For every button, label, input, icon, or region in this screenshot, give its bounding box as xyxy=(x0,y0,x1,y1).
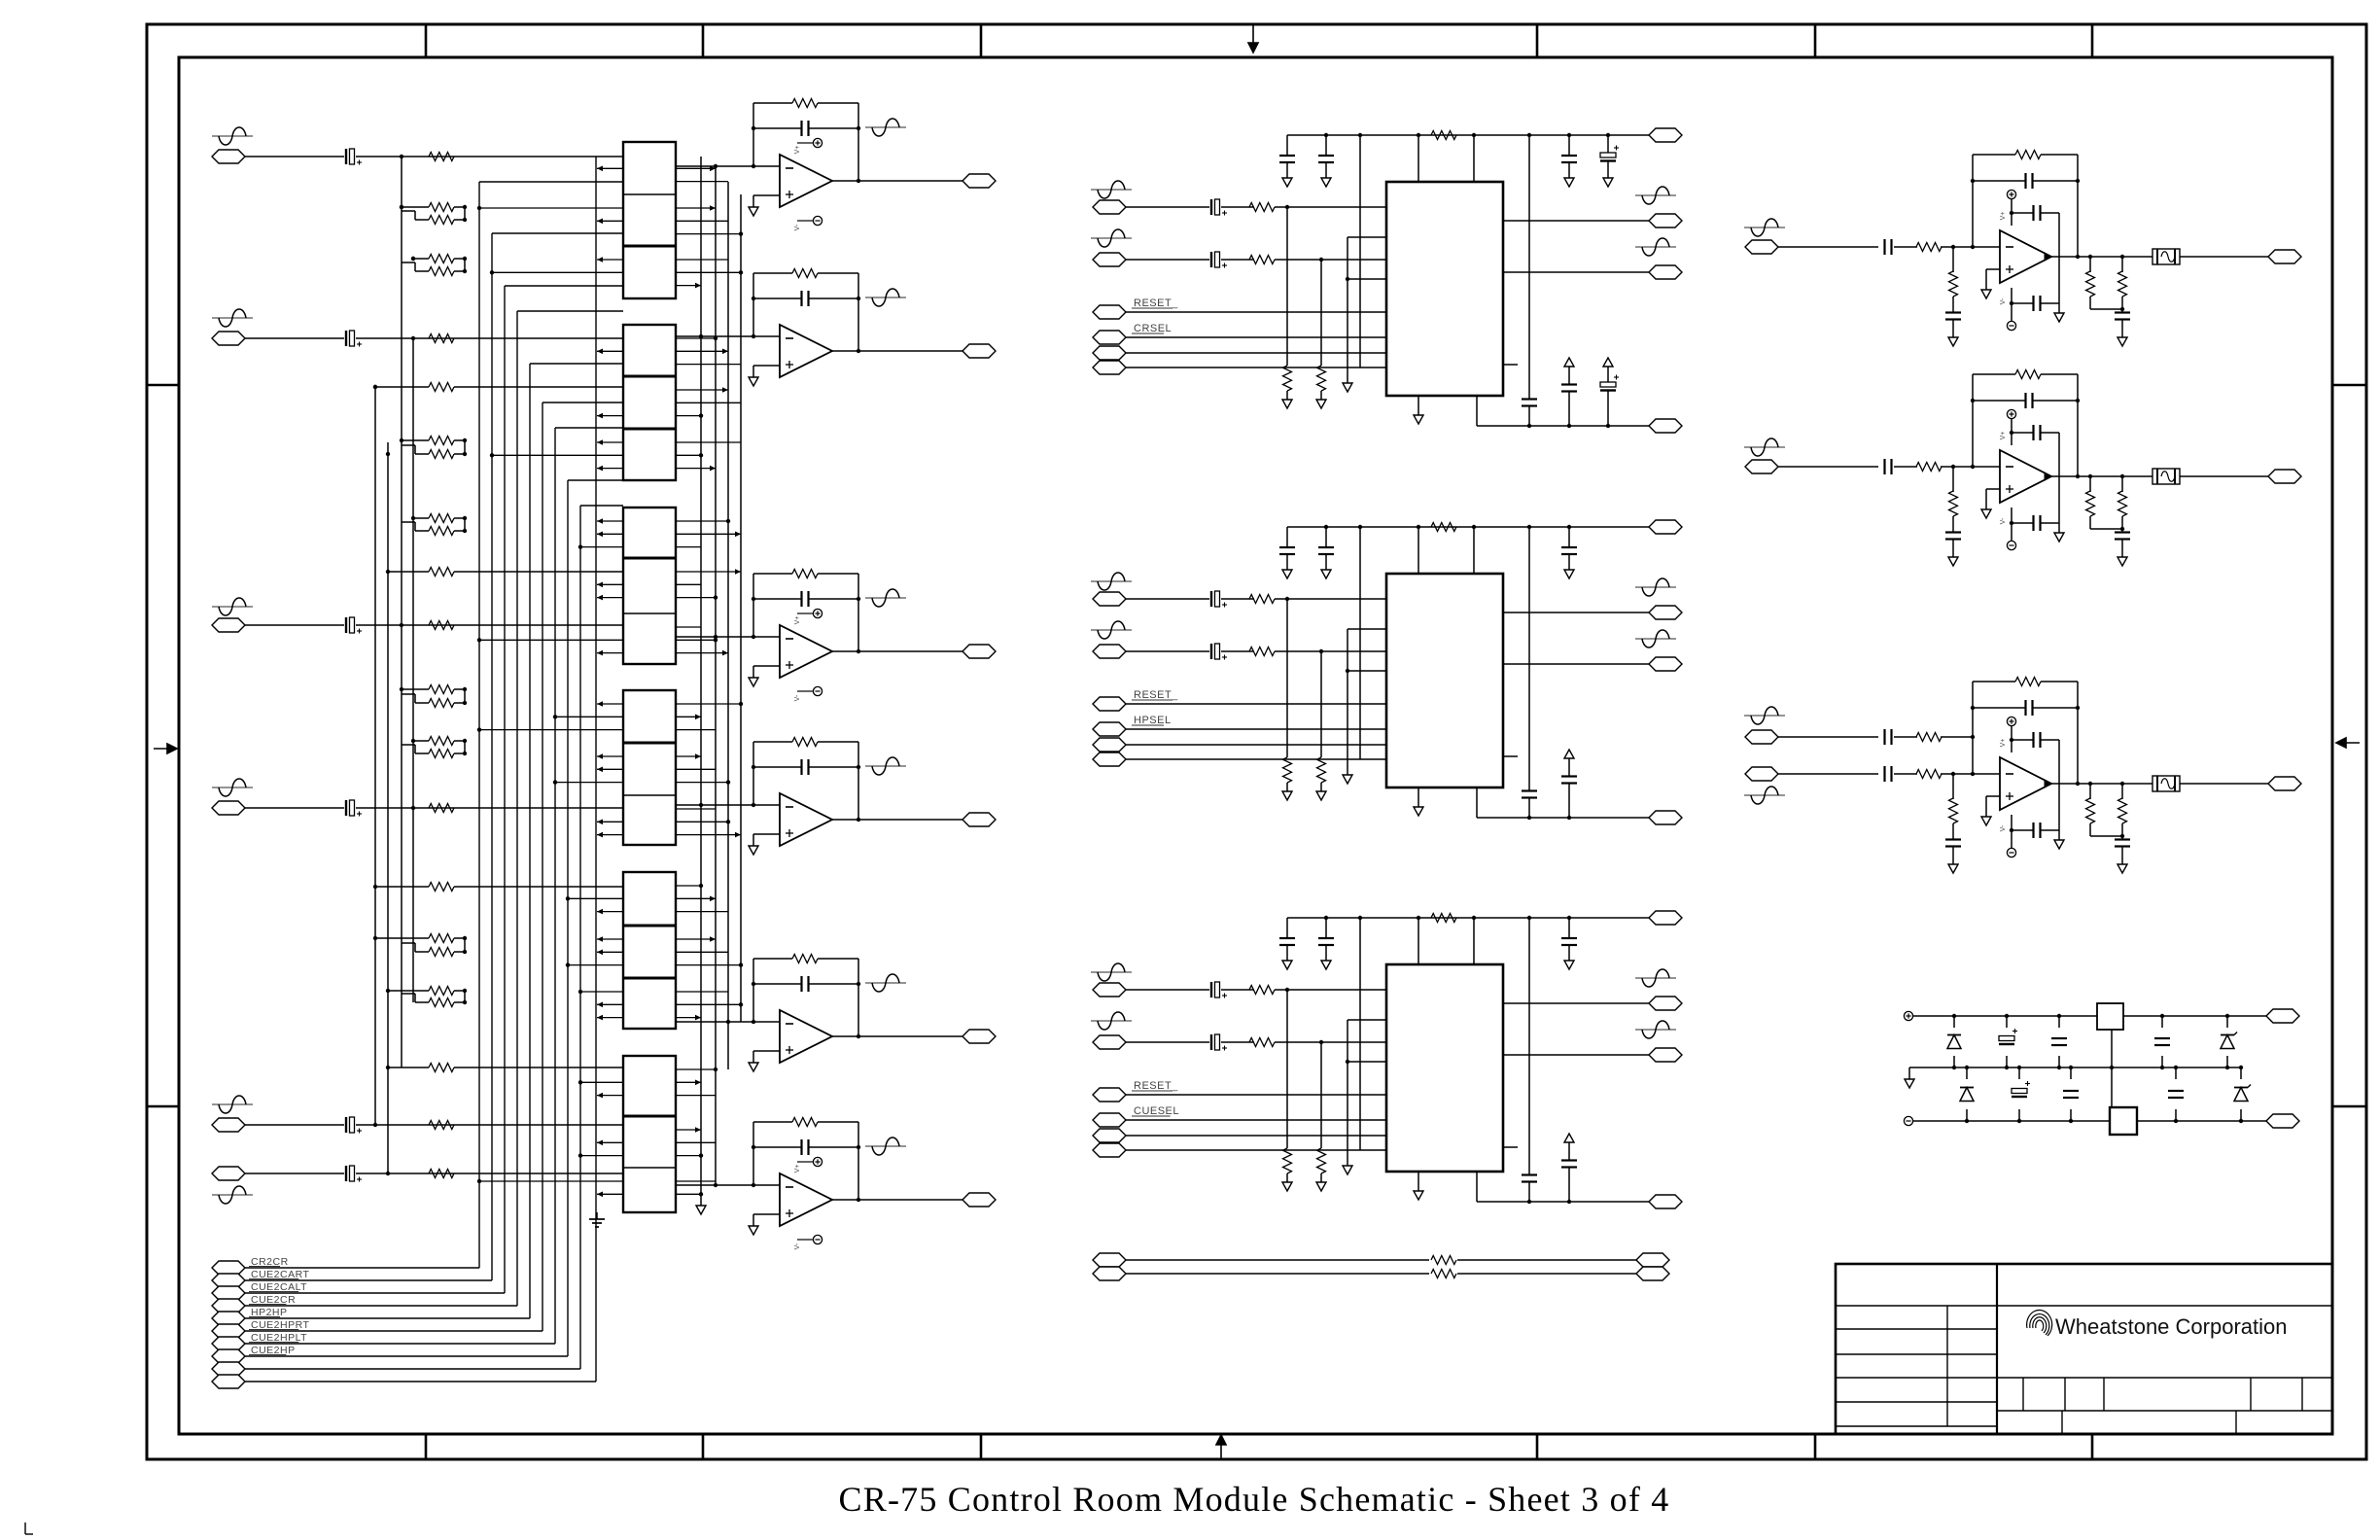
output load 2 xyxy=(2051,475,2152,477)
IC ground 3 xyxy=(1417,1172,1419,1191)
coupling capacitor C3 xyxy=(345,617,347,633)
rail drop 3 xyxy=(1528,918,1530,1174)
router bottom rail 1 xyxy=(1476,396,1478,426)
HPSEL input 2 xyxy=(1093,722,1126,736)
V+ terminal xyxy=(1904,1011,1912,1020)
router rail resistor 3 xyxy=(1431,914,1456,923)
line driver 3 input B xyxy=(1744,715,1785,717)
series cap 3 xyxy=(1883,766,1885,782)
op-amp U21 xyxy=(2000,230,2051,283)
output sine mark A1 xyxy=(865,126,906,128)
pulldown resistor 2a xyxy=(1286,599,1288,757)
router rail resistor 1 xyxy=(1431,131,1456,140)
V- rail 2 xyxy=(2011,507,2012,541)
V+ terminal A6 xyxy=(797,1161,813,1163)
control input 1c xyxy=(1093,346,1126,360)
svg-text:V+: V+ xyxy=(794,616,801,625)
V- terminal xyxy=(1904,1116,1912,1125)
bottom bank d at 2023 xyxy=(1966,1067,1968,1079)
bottom cap 1b xyxy=(1564,358,1574,367)
series resistor 3 xyxy=(1916,770,1942,779)
analog switch block U6 xyxy=(623,1056,676,1212)
router input A 1 xyxy=(1091,189,1132,191)
border zone ticks top xyxy=(425,24,428,57)
line driver 2 input xyxy=(1744,446,1785,448)
output sine mark A5 xyxy=(865,982,906,984)
bottom bank p at 2077 xyxy=(2018,1067,2020,1079)
control input 2c xyxy=(1093,738,1126,752)
RESET_ input 2 xyxy=(1093,697,1126,711)
analog switch block U1 xyxy=(623,142,676,298)
right cap 1b polarized xyxy=(1607,135,1609,153)
V+ rail 3 xyxy=(2007,717,2015,725)
V+ terminal A1 xyxy=(797,142,813,144)
input connector J6 xyxy=(212,1194,253,1196)
svg-text:V-: V- xyxy=(794,224,801,230)
coupling capacitor C2 xyxy=(345,331,347,346)
svg-text:RESET_: RESET_ xyxy=(1134,1080,1178,1092)
decoupling cap 2b xyxy=(1325,527,1327,547)
feedback loop 1 xyxy=(1972,155,1974,247)
input A resistor 2 xyxy=(1249,595,1275,604)
svg-text:V-: V- xyxy=(2000,824,2007,831)
decoupling cap 1b xyxy=(1325,135,1327,156)
input series resistors xyxy=(429,153,454,161)
svg-text:RESET_: RESET_ xyxy=(1134,297,1178,309)
router block 3 top supply rail xyxy=(1287,917,1649,919)
net connector 10 xyxy=(212,1375,245,1388)
op-amp A4 xyxy=(676,804,780,806)
output connector A6 xyxy=(962,1193,996,1207)
output load 3 xyxy=(2051,783,2152,785)
input B sine low 3 xyxy=(1744,794,1785,796)
V- terminal A1 xyxy=(797,220,813,222)
bus line 1 xyxy=(479,181,623,183)
analog switch block U2 xyxy=(623,325,676,480)
feedback jog 1 xyxy=(1359,135,1361,367)
output connector A1 xyxy=(962,174,996,188)
input shunt network 2 xyxy=(1952,467,1954,492)
title block xyxy=(1836,1264,2332,1434)
control input 3c xyxy=(1093,1129,1126,1142)
pulldown resistor 3b xyxy=(1320,1042,1322,1148)
top bank d at 2010 xyxy=(1953,1016,1955,1028)
input B cap 2 xyxy=(1210,644,1212,659)
decoupling cap 3b xyxy=(1325,918,1327,938)
regulator interconnect xyxy=(2111,1030,2113,1107)
bus line 2 xyxy=(492,232,623,234)
regulator VR2 xyxy=(2110,1107,2137,1135)
bottom bank c at 2130 xyxy=(2070,1067,2072,1079)
router bottom rail 2 xyxy=(1476,787,1478,818)
op-amp A2 xyxy=(676,335,780,337)
feedback capacitor A6 xyxy=(753,1146,801,1148)
feedback resistor A1 xyxy=(753,102,792,104)
net connector CUE2HPLT xyxy=(212,1337,245,1350)
top bank z at 2291 xyxy=(2226,1016,2228,1028)
router output 2 1 xyxy=(1503,271,1649,273)
top bank c at 2224 xyxy=(2161,1016,2163,1028)
svg-text:V+: V+ xyxy=(2000,212,2007,221)
input B cap 1 xyxy=(1210,252,1212,267)
input B resistor 2 xyxy=(1249,647,1275,656)
series cap 1 xyxy=(1883,239,1885,255)
IC ground 1 xyxy=(1417,396,1419,415)
coupling capacitor C4 xyxy=(345,800,347,816)
regulator VR1 xyxy=(2097,1003,2123,1030)
feedback capacitor A4 xyxy=(753,766,801,768)
svg-text:CUESEL: CUESEL xyxy=(1134,1105,1179,1117)
bottom cap 1c polarized xyxy=(1603,358,1613,367)
V+ terminal A3 xyxy=(797,612,813,614)
net connector CUE2CART xyxy=(212,1274,245,1287)
right cap 3a xyxy=(1568,918,1570,938)
router rail connector 3 xyxy=(1649,911,1682,925)
output connector 1 xyxy=(2268,250,2301,263)
ground mid rail xyxy=(1909,1067,2241,1068)
right-of-matrix verticals xyxy=(700,157,702,1206)
svg-text:V+: V+ xyxy=(2000,432,2007,440)
bus line 4 xyxy=(517,310,623,312)
V+ rail 1 xyxy=(2007,190,2015,198)
router block 2 top supply rail xyxy=(1287,526,1649,528)
corner registration mark xyxy=(24,1522,26,1534)
control input 1d xyxy=(1093,361,1126,374)
IC U12 xyxy=(1386,574,1503,787)
router output 1 2 xyxy=(1503,612,1649,613)
input shunt network 3 xyxy=(1952,774,1954,799)
bottom cap 2a xyxy=(1522,789,1537,791)
feedback resistor A5 xyxy=(753,958,792,960)
router rail connector 2 xyxy=(1649,520,1682,534)
center arrow left xyxy=(154,744,177,753)
router input B 1 xyxy=(1091,237,1132,239)
input connector J4 xyxy=(212,787,253,788)
input connector J5 xyxy=(212,1103,253,1105)
input B resistor 1 xyxy=(1249,256,1275,264)
svg-text:V+: V+ xyxy=(794,146,801,155)
output sine mark A2 xyxy=(865,297,906,298)
net connector CUE2HPRT xyxy=(212,1324,245,1338)
svg-text:RESET_: RESET_ xyxy=(1134,689,1178,701)
bus line 5 xyxy=(530,363,623,365)
bus feed resistors xyxy=(375,386,429,388)
matrix supply arrow xyxy=(696,1206,706,1214)
net connector CUE2HP xyxy=(212,1349,245,1363)
EMI filter FL3 xyxy=(2152,776,2180,791)
input B resistor 3 xyxy=(1249,1038,1275,1047)
input connector J1 xyxy=(212,135,253,137)
bottom cap 3a xyxy=(1522,1173,1537,1175)
Wheatstone logo leaf xyxy=(2027,1311,2052,1336)
analog switch block U3 xyxy=(623,507,676,664)
center arrow top xyxy=(1248,24,1258,52)
pulldown resistor 3a xyxy=(1286,990,1288,1148)
pulldown resistor 2b xyxy=(1320,651,1322,757)
pulldown resistor 1a xyxy=(1286,207,1288,366)
op-amp U23 xyxy=(2000,757,2051,810)
input A cap 2 xyxy=(1210,591,1212,607)
coupling capacitor C6 xyxy=(345,1166,347,1181)
title block left rows xyxy=(1836,1328,1997,1330)
border zone ticks left xyxy=(147,384,179,387)
bus line 8 xyxy=(568,479,623,481)
V+ rail 2 xyxy=(2007,409,2015,418)
router input B 3 xyxy=(1091,1020,1132,1022)
bottom bank z at 2305 xyxy=(2240,1067,2242,1079)
op-amp U22 xyxy=(2000,450,2051,503)
input A cap 3 xyxy=(1210,982,1212,997)
coupling capacitor C1 xyxy=(345,149,347,164)
RESET_ input 3 xyxy=(1093,1088,1126,1102)
gain resistor pairs xyxy=(402,206,429,208)
feedback resistor A2 xyxy=(753,272,792,274)
svg-text:CR-75 Control Room Module Sche: CR-75 Control Room Module Schematic - Sh… xyxy=(839,1480,1670,1519)
net connector CR2CR xyxy=(212,1261,245,1275)
op-amp A6 xyxy=(676,1184,780,1186)
feedback loop 2 xyxy=(1972,374,1974,467)
analog switch block U5 xyxy=(623,872,676,1029)
CUESEL input 3 xyxy=(1093,1113,1126,1127)
bus line 6 xyxy=(542,402,623,403)
EMI filter FL1 xyxy=(2152,249,2180,264)
svg-text:V-: V- xyxy=(2000,517,2007,524)
op-amp A3 xyxy=(676,636,780,638)
router input A 3 xyxy=(1091,971,1132,973)
feedback resistor A6 xyxy=(753,1121,792,1123)
output sine mark A3 xyxy=(865,597,906,599)
router block 1 top supply rail xyxy=(1287,134,1649,136)
feedback loop 3 xyxy=(1972,682,1974,774)
svg-text:V+: V+ xyxy=(2000,739,2007,748)
rail drop 1 xyxy=(1528,135,1530,399)
border zone ticks right xyxy=(2332,384,2366,387)
bus line 7 xyxy=(555,427,623,429)
title block right rows xyxy=(1997,1377,2332,1379)
svg-text:CRSEL: CRSEL xyxy=(1134,323,1172,334)
net connector CUE2CR xyxy=(212,1299,245,1312)
left junction verticals xyxy=(374,387,376,1125)
feedback resistor A3 xyxy=(753,573,792,575)
V- rail 1 xyxy=(2011,288,2012,321)
router output 1 3 xyxy=(1503,1002,1649,1004)
input A resistor 1 xyxy=(1249,203,1275,212)
IC ground 2 xyxy=(1417,787,1419,807)
control input 2d xyxy=(1093,752,1126,766)
decoupling cap 1a xyxy=(1286,135,1288,156)
decoupling cap 2a xyxy=(1286,527,1288,547)
bottom interconnect pair xyxy=(1093,1253,1126,1267)
bottom cap 2b xyxy=(1564,750,1574,758)
coupling capacitor C5 xyxy=(345,1117,347,1133)
feedback capacitor A3 xyxy=(753,598,801,600)
V- output connector xyxy=(2266,1114,2299,1128)
input shunt network 1 xyxy=(1952,247,1954,272)
output connector A4 xyxy=(962,813,996,826)
input connector J2 xyxy=(212,317,253,319)
output sine mark A6 xyxy=(865,1145,906,1147)
bottom cap 3b xyxy=(1564,1134,1574,1142)
border zone ticks bottom xyxy=(425,1434,428,1459)
op-amp A5 xyxy=(676,1021,780,1023)
control input 3d xyxy=(1093,1143,1126,1157)
router input B 2 xyxy=(1091,629,1132,631)
svg-text:V+: V+ xyxy=(794,1165,801,1173)
svg-text:V-: V- xyxy=(2000,297,2007,304)
center arrow right xyxy=(2336,738,2360,748)
input A resistor 3 xyxy=(1249,986,1275,995)
matrix ground xyxy=(596,1212,598,1219)
V- terminal A3 xyxy=(797,690,813,692)
router output 2 2 xyxy=(1503,663,1649,665)
router rail connector 1 xyxy=(1649,128,1682,142)
plus input ground 1 xyxy=(1986,268,2000,270)
op-amp A1 xyxy=(676,165,780,167)
output connector 2 xyxy=(2268,470,2301,483)
router rail resistor 2 xyxy=(1431,523,1456,532)
net connector HP2HP xyxy=(212,1312,245,1325)
CRSEL input 1 xyxy=(1093,331,1126,344)
feedback capacitor A5 xyxy=(753,983,801,985)
EMI filter FL2 xyxy=(2152,469,2180,484)
input connector J3 xyxy=(212,606,253,608)
series cap 3B xyxy=(1883,729,1885,745)
IC U11 xyxy=(1386,182,1503,396)
bus line 10 xyxy=(595,157,597,1382)
right cap 1a xyxy=(1568,135,1570,156)
V+ output connector xyxy=(2266,1009,2299,1023)
net connector 9 xyxy=(212,1362,245,1376)
RESET_ input 1 xyxy=(1093,305,1126,319)
output load 1 xyxy=(2051,256,2152,258)
svg-text:V-: V- xyxy=(794,1242,801,1249)
plus input ground 3 xyxy=(1986,795,2000,797)
output connector A3 xyxy=(962,645,996,658)
bottom bank c at 2238 xyxy=(2175,1067,2177,1079)
net connector CUE2CALT xyxy=(212,1286,245,1300)
series resistor 3B xyxy=(1916,733,1942,742)
svg-text:V-: V- xyxy=(794,694,801,701)
right cap 2a xyxy=(1568,527,1570,547)
svg-text:Wheatstone Corporation: Wheatstone Corporation xyxy=(2055,1314,2287,1339)
router input A 2 xyxy=(1091,580,1132,582)
output connector A2 xyxy=(962,344,996,358)
output connector 3 xyxy=(2268,777,2301,790)
rail drop 2 xyxy=(1528,527,1530,790)
output connector A5 xyxy=(962,1030,996,1043)
bus line 9 xyxy=(580,505,623,507)
bottom cap 1a xyxy=(1522,398,1537,400)
feedback capacitor A2 xyxy=(753,297,801,299)
line driver 1 input xyxy=(1744,227,1785,228)
decoupling cap 3a xyxy=(1286,918,1288,938)
center arrow bottom xyxy=(1216,1435,1226,1459)
input A cap 1 xyxy=(1210,199,1212,215)
feedback resistor A4 xyxy=(753,741,792,743)
feedback jog 2 xyxy=(1359,527,1361,759)
router bottom rail 3 xyxy=(1476,1172,1478,1202)
output sine mark A4 xyxy=(865,765,906,767)
line driver 3 input xyxy=(1745,767,1778,781)
top bank c at 2118 xyxy=(2058,1016,2060,1028)
top bank p at 2064 xyxy=(2006,1016,2008,1028)
series cap 2 xyxy=(1883,459,1885,474)
V- terminal A6 xyxy=(797,1239,813,1241)
router output 2 3 xyxy=(1503,1054,1649,1056)
input B cap 3 xyxy=(1210,1034,1212,1050)
feedback jog 3 xyxy=(1359,918,1361,1150)
feedback capacitor A1 xyxy=(753,127,801,129)
series resistor 1 xyxy=(1916,243,1942,252)
pulldown resistor 1b xyxy=(1320,260,1322,366)
bus line 3 xyxy=(505,285,623,287)
IC U13 xyxy=(1386,964,1503,1172)
svg-text:HPSEL: HPSEL xyxy=(1134,715,1172,726)
series resistor 2 xyxy=(1916,463,1942,472)
router output 1 1 xyxy=(1503,220,1649,222)
plus input ground 2 xyxy=(1986,488,2000,490)
analog switch block U4 xyxy=(623,690,676,845)
V- rail 3 xyxy=(2011,815,2012,848)
